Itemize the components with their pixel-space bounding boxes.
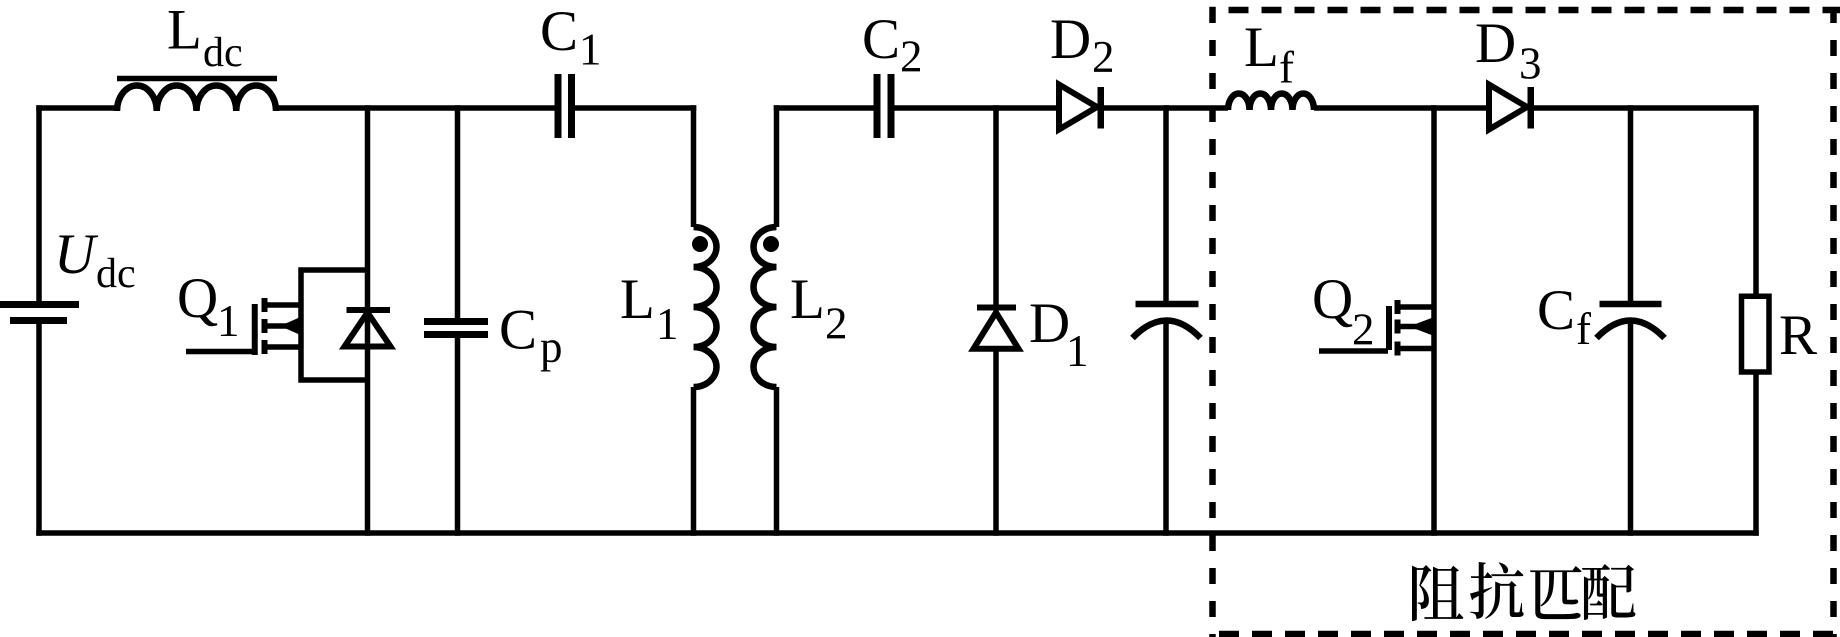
label impedance matching text 抗 <box>1470 562 1524 619</box>
svg-text:p: p <box>540 322 563 372</box>
diode D1 cathode bar <box>977 305 1016 311</box>
capacitor Cf curved plate <box>1597 321 1665 339</box>
inductor Ldc bar <box>117 76 277 82</box>
svg-text:L: L <box>790 268 825 331</box>
wire right branch R <box>1753 105 1759 536</box>
wire left branch <box>36 105 42 536</box>
svg-text:L: L <box>167 0 202 62</box>
capacitor C3 curved plate <box>1133 321 1201 339</box>
wire Lf to D3 anode <box>1314 105 1489 111</box>
svg-text:R: R <box>1779 304 1817 367</box>
capacitor C1 plates <box>558 74 572 138</box>
svg-text:dc: dc <box>96 251 136 297</box>
transistor Q2 channel stubs <box>1397 307 1434 349</box>
transistor Q1 body box <box>298 267 367 383</box>
wire C3 branch <box>1163 105 1169 536</box>
wire L1 branch <box>691 105 697 536</box>
wire D1 branch <box>993 105 999 536</box>
wire C2 to D2 anode <box>895 105 1060 111</box>
svg-text:2: 2 <box>1092 32 1115 82</box>
transistor Q1 channel ticks <box>262 298 268 354</box>
transistor Q1 arrow <box>280 317 301 335</box>
capacitor C3 top plate <box>1136 301 1199 308</box>
inductor L1 coil <box>694 227 717 387</box>
svg-text:f: f <box>1576 304 1591 354</box>
wire D3 cathode to output corner <box>1528 105 1759 111</box>
inductor Lf humps <box>1228 94 1314 110</box>
transistor Q2 gate bar <box>1386 306 1392 350</box>
wire bottom bus <box>36 530 1759 536</box>
diode D2 triangle <box>1059 85 1097 130</box>
diode D3 triangle <box>1489 85 1527 130</box>
resistor R box <box>1742 296 1770 372</box>
wire D2 cathode to Lf <box>1098 105 1228 111</box>
svg-text:1: 1 <box>1066 326 1089 376</box>
svg-text:C: C <box>499 299 537 362</box>
capacitor Cf top plate <box>1600 301 1662 308</box>
svg-text:f: f <box>1279 43 1294 93</box>
capacitor C2 plates <box>877 74 891 138</box>
svg-text:D: D <box>1029 292 1070 355</box>
battery Udc plates <box>0 301 79 308</box>
wire Q1 node to Cp node <box>368 105 458 111</box>
svg-text:Q: Q <box>1312 268 1353 331</box>
wire Q2 gate lead <box>1319 348 1388 354</box>
diode Q1 body diode bar <box>347 307 391 313</box>
wire L2 to C2 <box>774 105 874 111</box>
svg-text:2: 2 <box>900 32 923 82</box>
svg-text:dc: dc <box>203 30 243 76</box>
wire Cf branch <box>1628 105 1634 536</box>
svg-text:C: C <box>862 8 900 71</box>
svg-text:2: 2 <box>1352 305 1375 355</box>
transistor Q1 channel stubs <box>264 305 301 347</box>
svg-text:C: C <box>1537 279 1575 342</box>
inductor L2 coil <box>754 227 777 387</box>
wire battery to Ldc <box>36 105 118 111</box>
svg-text:L: L <box>1244 16 1279 79</box>
wire C1 to L1 <box>575 105 696 111</box>
wire Q2 branch <box>1431 105 1437 536</box>
wire Q1 gate lead <box>186 349 254 355</box>
svg-text:1: 1 <box>217 296 240 346</box>
inductor Ldc humps <box>117 86 276 111</box>
node L2 polarity dot <box>763 236 779 252</box>
label impedance matching text 配 <box>1582 564 1635 620</box>
svg-text:U: U <box>54 223 99 286</box>
diode D1 triangle <box>974 313 1019 349</box>
label impedance matching text 阻 <box>1412 565 1463 621</box>
svg-text:D: D <box>1050 8 1091 71</box>
svg-text:2: 2 <box>825 299 848 349</box>
node A Q1 drain branch <box>365 105 371 536</box>
node L1 polarity dot <box>692 236 708 252</box>
svg-text:D: D <box>1475 12 1516 75</box>
capacitor Cp plates <box>424 322 488 335</box>
svg-text:1: 1 <box>579 25 602 75</box>
node B Cp branch <box>455 105 461 536</box>
wire Cp node to C1 <box>458 105 555 111</box>
svg-text:C: C <box>540 0 578 63</box>
svg-text:3: 3 <box>1519 39 1542 89</box>
diode Q1 body diode triangle <box>345 313 391 347</box>
transistor Q2 channel ticks <box>1395 300 1401 356</box>
diode D2 cathode bar <box>1098 87 1105 129</box>
diode D3 cathode bar <box>1528 87 1535 129</box>
svg-text:L: L <box>620 268 655 331</box>
wire L2 branch <box>774 105 780 536</box>
box impedance matching dashed border <box>1210 7 1840 14</box>
svg-text:Q: Q <box>177 267 218 330</box>
wire Ldc to Q1 drain node <box>276 105 368 111</box>
transistor Q1 gate bar <box>252 304 258 355</box>
transistor Q2 arrow <box>1409 318 1432 335</box>
svg-text:1: 1 <box>656 299 679 349</box>
label impedance matching text 匹 <box>1530 566 1582 619</box>
